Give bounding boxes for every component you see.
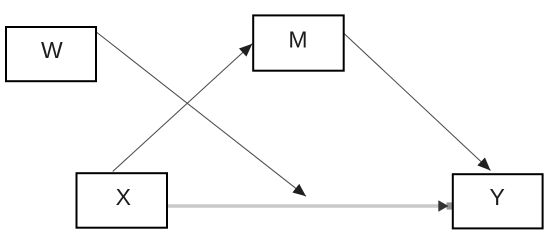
svg-text:Y: Y (490, 184, 505, 210)
svg-text:W: W (41, 37, 63, 63)
svg-text:M: M (288, 27, 307, 53)
svg-text:X: X (116, 184, 131, 210)
